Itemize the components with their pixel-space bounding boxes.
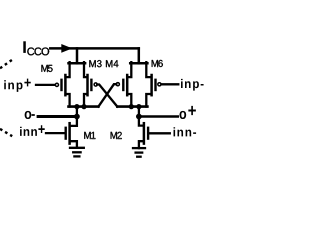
label inp+ (4, 79, 31, 92)
wire rail drop left (stub to left pair) (76, 48, 79, 63)
ground under M2 (133, 148, 145, 157)
dashed crop line top-left (0, 59, 13, 68)
label M2 (111, 132, 122, 139)
wire o- node drop (76, 107, 78, 117)
transistor M2 (139, 117, 148, 149)
transistor M1 (66, 117, 77, 148)
label M4 (106, 60, 118, 67)
labels as paths (4, 41, 203, 139)
label inn+ (20, 125, 45, 136)
transistor M6 (146, 62, 161, 106)
junction dot o+ output (136, 114, 142, 120)
label o+ (179, 106, 195, 119)
wire o+ drain bar (117, 105, 147, 108)
label inn- (174, 127, 197, 136)
junction dot o+ bar M4 drain (129, 104, 134, 109)
transistor M5 (55, 62, 69, 106)
wire ICCO to rail (50, 47, 139, 50)
transistor M4 (116, 62, 131, 106)
ground under M1 (70, 148, 84, 157)
label M3 (89, 60, 101, 67)
wire o- output (38, 115, 77, 118)
wire inp+ to M5 gate (36, 84, 55, 86)
wire o- drain bar (69, 105, 99, 108)
wire M2 gate to inn- (150, 132, 170, 134)
label ICCO I (23, 41, 26, 53)
dashed crop line bottom-left (0, 129, 12, 136)
label CCO (27, 48, 49, 56)
wire left source bar (69, 62, 86, 65)
label M1 (84, 132, 95, 139)
wire o+ node drop (138, 107, 140, 117)
junction dot o- bar M3 drain (81, 104, 86, 109)
junction dot o- bar drop (74, 104, 79, 109)
wire o+ output (139, 115, 178, 118)
current arrow on ICCO wire (61, 44, 72, 53)
label inp- (181, 79, 204, 91)
label M6 (152, 60, 163, 67)
wire right source bar (130, 62, 147, 65)
wire cross-couple M4 gate to o- node (98, 84, 116, 106)
label o- (25, 111, 35, 119)
label M5 (41, 65, 52, 72)
wire M6 gate to inp- (161, 83, 178, 85)
wire rail drop right (138, 48, 141, 63)
junction dot o- output (74, 114, 80, 120)
transistor M3 (84, 62, 97, 106)
wire inn+ to M1 gate (46, 132, 65, 134)
junction dot o+ bar drop (136, 104, 141, 109)
wire cross-couple M3 gate to o+ node (97, 85, 117, 107)
